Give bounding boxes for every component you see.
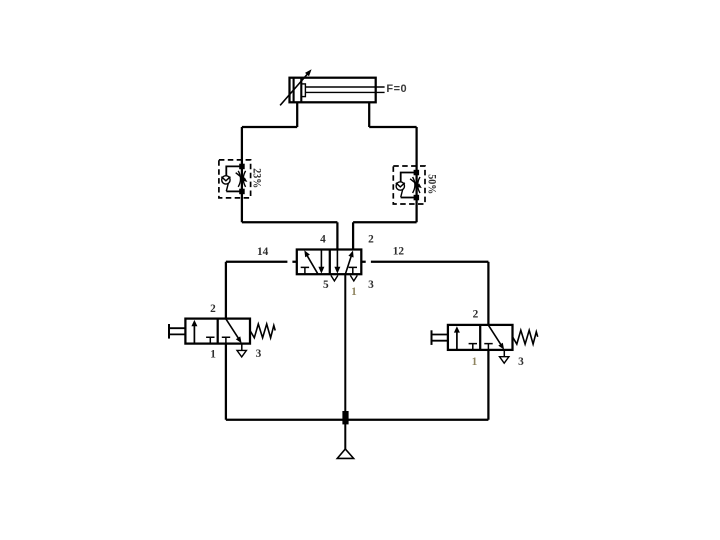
5/2 left position blocked port [301,267,309,274]
3/2 right position blocked port [484,344,492,350]
junction supply node [342,411,348,424]
wire right valve port 2 drop [487,262,489,325]
exhaust stub port 3 [241,344,243,351]
wire left valve port 2 drop [225,262,227,319]
3/2 right position blocked port [222,337,230,343]
return spring [250,324,275,338]
push button rods [169,328,185,334]
5/2 valve position divider [329,250,331,275]
svg-text:1: 1 [210,349,216,361]
check valve branch bottom [226,190,242,192]
3/2 left position blocked port [469,344,477,350]
wire right trunk through flow valve [415,127,417,222]
wire jog left [242,126,297,128]
svg-text:14: 14 [257,246,269,258]
throttle adjustment arrow [236,173,245,180]
5/2-way pilot valve body [297,250,362,275]
check valve branch outlet [401,189,403,197]
push button rods [432,335,448,341]
svg-text:F=0: F=0 [386,83,407,95]
cylinder adjustable cushioning arrow [280,72,309,105]
svg-text:5: 5 [323,279,329,291]
exhaust triangle port 3 [500,357,509,364]
5/2 left position arrow 1-4 [307,255,318,274]
wire drop into port 2 [352,222,354,249]
5/2 exhaust chevron port 5 [331,275,338,281]
wire left valve port 1 drop [225,344,227,420]
3/2-way valve with push button, left [169,319,275,357]
wire cylinder right port down [368,102,370,127]
3/2 valve body [185,319,250,344]
wire cylinder left port down [296,102,298,127]
throttle adjustment arrow [410,179,419,186]
cylinder piston rod [305,87,384,92]
3/2 right position arrow 2-3 [488,325,501,345]
svg-text:3: 3 [368,279,374,291]
svg-text:2: 2 [210,303,216,315]
junction dot top [414,170,420,176]
3/2 valve divider [479,325,481,350]
wire left trunk through flow valve [241,127,243,222]
3/2 left position arrow 1-2 [456,332,458,350]
check valve ball [396,182,404,190]
check valve branch inlet [226,166,242,175]
svg-text:3: 3 [518,356,524,368]
one-way flow control valve 50% [393,166,437,204]
check valve seat [396,183,405,187]
3/2 valve body [448,325,513,350]
3/2 valve divider [217,319,219,344]
svg-text:3: 3 [256,348,262,360]
3/2 left position blocked port [206,337,214,343]
junction dot bottom [414,195,420,201]
svg-text:23%: 23% [250,168,262,188]
5/2 exhaust chevron port 3 [350,275,357,281]
3/2 left position arrow 1-2 [193,325,195,343]
svg-text:2: 2 [473,309,479,321]
5/2 right position arrow 1-2 [345,257,351,275]
check valve branch inlet [401,173,417,182]
wire to valve port 2 [353,221,417,223]
throttle arcs [238,171,245,187]
svg-text:1: 1 [472,356,478,368]
push button plate [168,324,170,339]
3/2-way valve with push button, right [432,325,538,363]
check valve branch bottom [401,197,417,199]
cylinder 1A (double-acting) body [290,78,376,103]
svg-text:12: 12 [393,246,405,258]
5/2 left position arrow 2-3 [320,250,322,268]
check valve branch outlet [226,183,228,191]
5/2 right position arrow 4-5 [336,250,338,268]
return spring [513,330,538,344]
wire 5/2 port 1 to supply [344,274,346,449]
one-way flow control valve 23% [219,160,263,198]
wire right valve port 1 drop [487,350,489,420]
wire pilot 12 [361,261,488,263]
junction dot top [239,164,245,170]
wire drop into port 4 [336,222,338,249]
compressed air source [337,449,353,458]
svg-text:2: 2 [368,234,374,246]
wire to valve port 4 [242,221,338,223]
flow valve dashed enclosure [219,160,251,198]
check valve seat [221,177,230,181]
svg-text:50%: 50% [425,174,437,194]
cylinder rod plate [301,84,305,97]
check valve ball [222,176,230,184]
push button plate [431,330,433,345]
exhaust stub port 3 [503,350,505,357]
flow valve dashed enclosure [393,166,425,204]
cylinder piston [294,78,302,103]
3/2 right position arrow 2-3 [226,319,239,339]
wire pilot 14 [226,261,297,263]
wire supply rail [226,419,489,421]
throttle arcs [413,177,420,193]
junction dot bottom [239,189,245,195]
svg-text:4: 4 [320,233,326,245]
5/2 right position blocked port [349,267,357,274]
wire jog right [369,126,416,128]
svg-text:1: 1 [351,286,357,298]
exhaust triangle port 3 [237,350,246,357]
